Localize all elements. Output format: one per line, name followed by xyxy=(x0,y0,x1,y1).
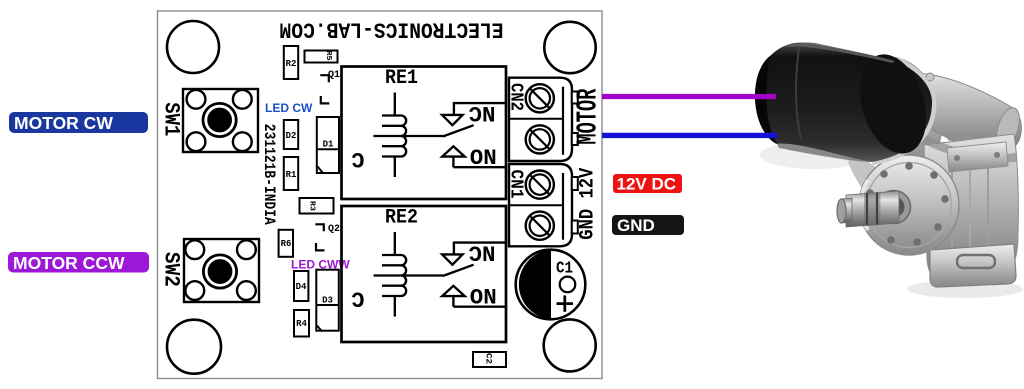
svg-text:D4: D4 xyxy=(296,282,307,292)
shaft step tip xyxy=(841,198,852,223)
svg-text:RE1: RE1 xyxy=(385,67,418,90)
svg-text:MOTOR CCW: MOTOR CCW xyxy=(13,253,125,273)
gearbox top plate xyxy=(947,142,1008,172)
relay RE1 NO contact xyxy=(442,146,506,167)
housing ear screw xyxy=(907,74,917,84)
svg-text:12V DC: 12V DC xyxy=(617,175,677,194)
transistor Q2 xyxy=(315,224,340,250)
resistor R3 xyxy=(300,198,334,214)
svg-text:R5: R5 xyxy=(324,51,332,61)
svg-text:MOTOR: MOTOR xyxy=(571,88,604,144)
motor can top highlight xyxy=(783,43,895,63)
terminal block CN2 xyxy=(509,78,572,161)
svg-text:CN1: CN1 xyxy=(506,170,526,199)
diode D3 xyxy=(316,270,339,332)
svg-text:RE2: RE2 xyxy=(385,207,418,230)
svg-text:CN2: CN2 xyxy=(506,83,526,111)
label 12V DC xyxy=(613,174,682,194)
CN2 pin 2 xyxy=(572,133,578,145)
motor end bell silver ring xyxy=(843,47,955,182)
svg-text:SW2: SW2 xyxy=(158,252,183,287)
CN1 pin 1 xyxy=(572,177,578,190)
svg-text:R2: R2 xyxy=(286,59,297,69)
motor can bottom reflection xyxy=(777,144,871,162)
terminal block CN1 xyxy=(509,164,572,246)
motor can crimp ring xyxy=(796,43,801,139)
svg-text:231121B-INDIA: 231121B-INDIA xyxy=(260,124,278,225)
CN2 pin 1 xyxy=(572,92,578,104)
svg-text:NC: NC xyxy=(469,100,496,125)
capacitor C1 xyxy=(516,250,586,320)
resistor R1 xyxy=(284,157,298,190)
label MOTOR CW xyxy=(9,112,148,133)
CN1 pin 2 xyxy=(572,221,578,234)
svg-text:R4: R4 xyxy=(296,319,307,329)
label MOTOR CCW xyxy=(8,252,149,273)
resistor R5 xyxy=(305,51,338,63)
svg-text:D2: D2 xyxy=(286,131,297,141)
relay RE1 box xyxy=(342,67,507,200)
mounting hole top-right xyxy=(544,22,595,73)
relay RE1 NC contact xyxy=(442,103,506,125)
svg-text:NC: NC xyxy=(469,240,496,265)
relay RE2 box xyxy=(342,206,507,342)
relay RE1 coil xyxy=(374,93,444,178)
svg-text:D3: D3 xyxy=(322,296,333,306)
flange bolt holes xyxy=(866,162,949,246)
switch SW2 xyxy=(184,239,259,302)
svg-text:NO: NO xyxy=(470,282,497,307)
motor photo xyxy=(755,42,1024,298)
shaft boss xyxy=(878,191,911,224)
resistor R2 xyxy=(284,46,298,79)
svg-text:C: C xyxy=(351,286,364,311)
transistor Q1 xyxy=(320,70,340,103)
diode D1 xyxy=(317,117,339,173)
motor end bell rim arc xyxy=(872,59,934,163)
svg-text:LED CW: LED CW xyxy=(265,101,313,115)
motor can right face xyxy=(848,46,937,162)
svg-text:R6: R6 xyxy=(281,239,292,249)
svg-text:Q2: Q2 xyxy=(328,224,340,235)
wire purple (motor CW) xyxy=(602,94,776,99)
svg-text:D1: D1 xyxy=(323,140,334,150)
PCB board outline xyxy=(158,11,603,379)
svg-text:SW1: SW1 xyxy=(158,102,183,136)
relay RE1 switch blade xyxy=(443,125,474,136)
relay RE2 switch blade xyxy=(443,265,474,276)
soft shadow under gearbox xyxy=(907,280,1023,298)
resistor R6 xyxy=(279,230,293,257)
svg-text:C: C xyxy=(351,146,364,171)
flange disc xyxy=(859,155,959,255)
mounting hole top-left xyxy=(167,21,219,73)
label GND xyxy=(612,215,684,235)
svg-text:ELECTRONICS-LAB.COM: ELECTRONICS-LAB.COM xyxy=(280,17,504,42)
relay RE2 NO contact xyxy=(442,286,506,307)
soft shadow under motor can xyxy=(760,141,870,169)
mounting hole bottom-right xyxy=(544,319,596,371)
svg-text:C1: C1 xyxy=(556,260,573,279)
relay RE2 NC contact xyxy=(442,243,506,265)
worm housing end cap xyxy=(992,105,1023,151)
motor shaft xyxy=(846,191,899,227)
svg-text:R1: R1 xyxy=(286,170,297,180)
motor can left cap shading xyxy=(755,56,777,144)
svg-text:GND: GND xyxy=(617,216,655,235)
gearbox bottom foot xyxy=(930,244,1016,287)
motor worm housing xyxy=(894,73,1021,153)
svg-text:C2: C2 xyxy=(484,353,493,364)
wire blue (motor CCW) xyxy=(602,133,777,138)
svg-text:MOTOR CW: MOTOR CW xyxy=(14,113,113,133)
resistor R4 xyxy=(294,310,309,337)
gearbox block xyxy=(924,134,1018,283)
motor can (black cylinder) xyxy=(755,42,932,162)
mounting hole bottom-left xyxy=(167,320,221,374)
switch SW1 xyxy=(183,89,258,152)
capacitor C2 xyxy=(473,352,506,367)
svg-text:R3: R3 xyxy=(308,201,316,211)
svg-text:GND 12V: GND 12V xyxy=(577,168,600,240)
svg-text:NO: NO xyxy=(470,143,497,168)
diode D2 xyxy=(284,120,298,149)
diode D4 xyxy=(294,271,308,301)
relay RE2 coil xyxy=(374,232,444,317)
